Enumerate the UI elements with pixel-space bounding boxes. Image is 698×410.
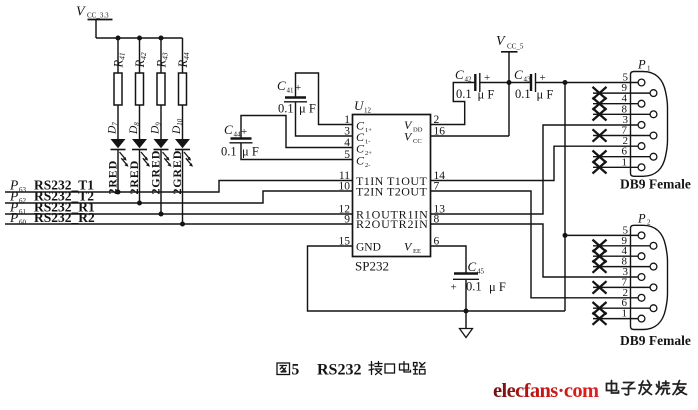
svg-text:+: + xyxy=(241,126,247,138)
wire P2 pin5 row xyxy=(565,234,638,236)
P2 pin 7 no-connect stub xyxy=(593,276,650,288)
label U12 pin numbers xyxy=(339,114,446,248)
LED D9 xyxy=(150,122,172,167)
svg-text:C: C xyxy=(356,154,365,168)
P1 pin 4 no-connect stub xyxy=(593,93,638,105)
logo chinese 电子发烧友 xyxy=(607,381,687,395)
resistor R42 xyxy=(133,38,148,139)
P1 pin 1 X mark xyxy=(593,161,607,173)
svg-text:5: 5 xyxy=(344,149,350,161)
svg-text:EE: EE xyxy=(413,248,421,255)
P1 pin 2 xyxy=(623,135,629,147)
svg-text:elecfans·com: elecfans·com xyxy=(493,380,599,402)
wire LED D10 cathode to bus xyxy=(182,150,184,225)
node junction D10 / bus xyxy=(180,222,185,227)
wire pin15 GND to ground rail xyxy=(308,246,566,311)
P2 pin 5 xyxy=(623,224,629,236)
svg-text:μ F: μ F xyxy=(242,145,259,159)
node P61 RS232_R1 label xyxy=(9,200,95,217)
svg-text:2: 2 xyxy=(647,218,651,226)
svg-text:P: P xyxy=(637,211,646,225)
svg-text:DD: DD xyxy=(413,126,423,133)
svg-text:0.1: 0.1 xyxy=(278,102,294,116)
wire pin6 VEE to C45 xyxy=(431,246,467,274)
wire pin14 T1OUT to P1 pin2 xyxy=(431,146,639,180)
capacitor C41 xyxy=(277,78,316,116)
svg-text:μ F: μ F xyxy=(489,280,506,294)
wire drop P1 pin5 to P2 pin5 xyxy=(564,83,566,236)
P2 pin 6 no-connect stub xyxy=(593,297,650,309)
resistor R41 xyxy=(112,38,127,139)
label U12 pin names xyxy=(356,118,429,255)
svg-text:μ F: μ F xyxy=(299,102,316,116)
label 2RED xyxy=(127,160,141,195)
svg-text:1: 1 xyxy=(622,156,628,168)
svg-text:12: 12 xyxy=(364,107,372,115)
svg-text:P: P xyxy=(9,210,18,225)
P1 pin 9 X mark xyxy=(593,87,607,99)
P2 pin 1 no-connect stub xyxy=(593,308,638,320)
svg-text:V: V xyxy=(496,34,506,49)
LED D10 xyxy=(171,118,193,167)
svg-text:GND: GND xyxy=(356,242,381,254)
svg-text:4: 4 xyxy=(344,137,350,149)
P1 pin 7 X mark xyxy=(593,129,607,141)
svg-text:42: 42 xyxy=(465,76,473,84)
capacitor C42 xyxy=(455,67,494,102)
wire pin8 R2IN to P2 pin3 xyxy=(431,224,639,277)
wire C41 bottom to pin3 C1- xyxy=(296,102,353,136)
svg-text:3: 3 xyxy=(344,126,350,138)
label P2 DB9 Female xyxy=(620,333,691,348)
wire RS232_R2 bus to pin9 xyxy=(5,223,353,225)
svg-text:CC_5: CC_5 xyxy=(507,43,524,51)
node junction rail / P1-P2 drop xyxy=(563,80,568,85)
P1 pin 7 no-connect stub xyxy=(593,125,650,137)
svg-text:C: C xyxy=(514,67,523,82)
P2 pin 9 X mark xyxy=(593,240,607,252)
LED D7 xyxy=(107,122,129,167)
power VCC_5 symbol xyxy=(496,34,524,52)
power VCC_3.3 symbol xyxy=(76,5,113,20)
wire VCC rail C43 to P1 pin5 xyxy=(536,82,639,84)
capacitor C43 xyxy=(514,67,553,102)
P1 pin 4 X mark xyxy=(593,98,607,110)
resistor R44 xyxy=(176,38,191,139)
svg-text:C: C xyxy=(468,259,477,274)
capacitor C44 xyxy=(221,122,259,159)
node junction C45 / ground rail xyxy=(464,309,469,314)
svg-text:41: 41 xyxy=(287,87,295,95)
node P62 RS232_T2 label xyxy=(9,189,94,206)
svg-text:1: 1 xyxy=(344,114,350,126)
P1 pin 6 X mark xyxy=(593,151,607,163)
svg-text:5: 5 xyxy=(292,362,300,379)
svg-text:C: C xyxy=(224,122,233,137)
wire pin13 R1IN to P1 pin3 xyxy=(431,125,639,214)
wire VCC_5 stem to pin16 xyxy=(431,52,510,136)
P1 pin 9 no-connect stub xyxy=(593,82,650,94)
svg-text:CC: CC xyxy=(413,138,422,145)
svg-text:R2OUTR2IN: R2OUTR2IN xyxy=(356,217,429,231)
wire C41 top to pin1 C1+ xyxy=(296,73,353,125)
svg-text:μ F: μ F xyxy=(478,88,495,102)
connector P1 DB9 shell xyxy=(631,58,668,177)
svg-text:2+: 2+ xyxy=(365,150,372,157)
svg-text:1: 1 xyxy=(622,308,628,320)
wire C44 bottom to pin5 C2- xyxy=(241,143,353,160)
P1 pin 1 no-connect stub xyxy=(593,156,638,168)
svg-text:2-: 2- xyxy=(365,162,370,169)
P1 pin 8 no-connect stub xyxy=(593,103,650,115)
svg-text:0.1: 0.1 xyxy=(466,280,482,294)
wire VCC rail C42 to C43 xyxy=(480,82,531,84)
svg-text:60: 60 xyxy=(19,219,27,227)
wire C45 to ground rail xyxy=(465,279,467,311)
node junction D8 / bus xyxy=(137,201,142,206)
svg-text:1+: 1+ xyxy=(365,127,372,134)
svg-text:0.1: 0.1 xyxy=(456,87,472,101)
svg-text:9: 9 xyxy=(344,214,350,226)
svg-text:SP232: SP232 xyxy=(355,259,389,274)
node junction VCC rail / R43 xyxy=(159,36,164,41)
node junction VCC rail / R41 xyxy=(116,36,121,41)
wire VCC_3.3 stem xyxy=(95,20,97,39)
svg-text:45: 45 xyxy=(477,268,485,276)
P1 pin contacts xyxy=(638,79,657,171)
wire LED D9 cathode to bus xyxy=(160,150,162,215)
wire drop P2 pin5 to ground rail xyxy=(564,235,566,311)
P2 pin contacts xyxy=(638,232,657,322)
label P1 DB9 Female xyxy=(620,177,691,192)
svg-text:0.1: 0.1 xyxy=(515,87,531,101)
wire RS232_R1 bus to pin12 xyxy=(5,213,353,215)
ground symbol xyxy=(460,311,473,338)
P2 pin 4 X mark xyxy=(593,250,607,262)
svg-text:P: P xyxy=(637,58,646,72)
caption figure label xyxy=(277,362,425,379)
svg-text:DB9 Female: DB9 Female xyxy=(620,333,691,348)
svg-text:C: C xyxy=(455,67,464,82)
LED D8 xyxy=(128,122,150,167)
label 2RED xyxy=(106,160,120,195)
P2 pin 8 no-connect stub xyxy=(593,256,650,268)
P2 pin 4 no-connect stub xyxy=(593,245,638,257)
label 2GRED xyxy=(170,150,184,195)
node junction D7 / bus xyxy=(116,190,121,195)
svg-text:V: V xyxy=(76,5,86,20)
wire LED D8 cathode to bus xyxy=(139,150,141,204)
node P63 RS232_T1 label xyxy=(9,178,94,195)
svg-text:1-: 1- xyxy=(365,139,370,146)
svg-text:63: 63 xyxy=(19,186,27,194)
svg-text:61: 61 xyxy=(19,208,27,216)
svg-text:C: C xyxy=(277,78,286,93)
svg-text:62: 62 xyxy=(19,197,27,205)
wire RS232_T1 bus to pin11 xyxy=(5,181,353,193)
P2 pin 1 X mark xyxy=(593,312,607,324)
svg-text:10: 10 xyxy=(339,181,351,193)
capacitor C45 xyxy=(451,259,506,294)
node junction VCC_5 / rail xyxy=(507,80,512,85)
svg-text:μ F: μ F xyxy=(537,88,554,102)
svg-text:DB9 Female: DB9 Female xyxy=(620,177,691,192)
node junction P2 pin5 xyxy=(563,233,568,238)
logo elecfans.com xyxy=(493,380,599,402)
P1 pin 3 xyxy=(623,114,629,126)
P2 pin 7 X mark xyxy=(593,281,607,293)
P1 pin 6 no-connect stub xyxy=(593,146,650,158)
node P60 RS232_R2 label xyxy=(9,210,95,227)
P2 pin 6 X mark xyxy=(593,302,607,314)
svg-text:RS232_R2: RS232_R2 xyxy=(34,210,95,225)
node junction D9 / bus xyxy=(159,212,164,217)
op-amp/IC U12 SP232 body xyxy=(353,98,431,274)
wire VCC_3.3 rail xyxy=(96,37,183,39)
P2 pin 9 no-connect stub xyxy=(593,235,650,247)
wire pin7 T2OUT to P2 pin2 xyxy=(431,191,639,298)
label 2GRED xyxy=(149,150,163,195)
svg-text:+: + xyxy=(451,282,457,294)
svg-text:0.1: 0.1 xyxy=(221,145,237,159)
wire LED D7 cathode to bus xyxy=(117,150,119,193)
connector P2 DB9 shell xyxy=(631,211,668,329)
node junction VCC rail / R42 xyxy=(137,36,142,41)
resistor R43 xyxy=(155,38,170,139)
svg-text:1: 1 xyxy=(647,65,651,73)
P2 pin 8 X mark xyxy=(593,260,607,272)
svg-text:CC_3.3: CC_3.3 xyxy=(87,12,109,20)
P2 pin 3 xyxy=(623,266,629,278)
svg-text:T2IN T2OUT: T2IN T2OUT xyxy=(356,184,427,198)
wire RS232_T2 bus to pin10 xyxy=(5,191,353,203)
wire pin2 VDD to C42 xyxy=(431,83,475,125)
wire C44 top to pin4 C2+ xyxy=(241,116,353,148)
P1 pin 8 X mark xyxy=(593,108,607,120)
P1 pin 5 xyxy=(623,72,629,84)
P2 pin 2 xyxy=(623,287,629,299)
svg-text:RS232: RS232 xyxy=(317,362,361,379)
